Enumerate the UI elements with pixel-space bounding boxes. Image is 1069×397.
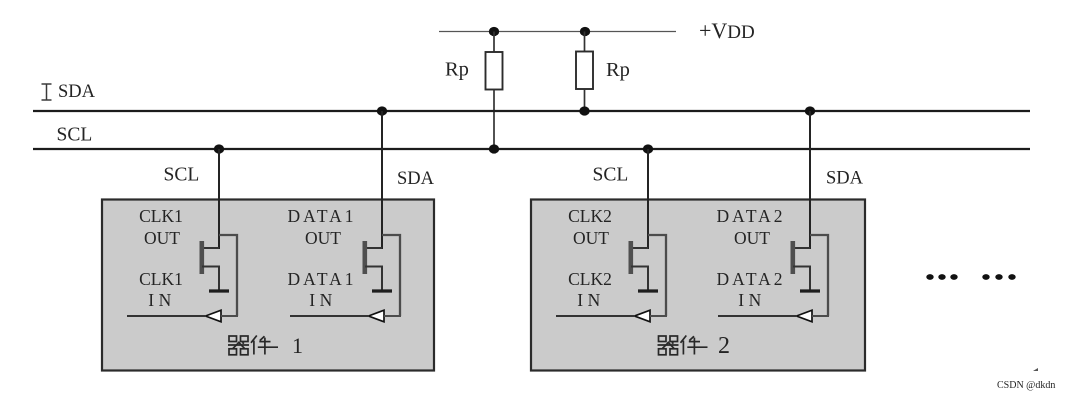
svg-text:IN: IN xyxy=(577,290,604,310)
device 1 box xyxy=(102,200,434,371)
svg-text:SDA: SDA xyxy=(58,82,96,102)
source terminal bar Q3 xyxy=(638,289,658,292)
svg-text:DATA2: DATA2 xyxy=(716,206,785,226)
wire SDA drop to device 1 DATA xyxy=(381,111,383,249)
svg-text:OUT: OUT xyxy=(144,228,180,248)
input buffer triangle CLK2 xyxy=(635,310,651,322)
label DATA2 IN xyxy=(716,269,785,310)
svg-text:DATA2: DATA2 xyxy=(716,269,785,289)
svg-text:DATA1: DATA1 xyxy=(287,269,356,289)
device 2 box xyxy=(531,200,865,371)
resistor Rp1 xyxy=(486,32,503,150)
wire SCL drop to device 2 CLK xyxy=(647,149,649,249)
svg-text:DATA1: DATA1 xyxy=(287,206,356,226)
wire SDA drop to device 2 DATA xyxy=(809,111,811,249)
source terminal bar Q1 xyxy=(209,289,229,292)
input buffer triangle DATA1 xyxy=(369,310,385,322)
svg-text:SCL: SCL xyxy=(593,165,629,186)
junction dot on SCL for CLK1 xyxy=(214,144,224,153)
svg-text:SDA: SDA xyxy=(826,169,864,189)
junction dot on SDA for Rp2 xyxy=(579,106,589,115)
wire feedback branch CLK1 xyxy=(219,235,237,316)
source terminal bar Q2 xyxy=(372,289,392,292)
label CLK2 IN xyxy=(568,269,612,310)
label DATA1 OUT xyxy=(287,206,356,248)
junction dot J1 (Rp1 top on VDD rail) xyxy=(489,27,499,36)
junction dot on SDA for DATA1 xyxy=(377,106,387,115)
svg-text:OUT: OUT xyxy=(573,228,609,248)
transistor Q3 (CLK2 driver) xyxy=(629,241,649,290)
ellipsis dots (more devices, group 2) xyxy=(982,274,1015,280)
wire DATA1 IN xyxy=(290,315,369,317)
svg-text:CLK1: CLK1 xyxy=(139,269,183,289)
label CLK1 IN xyxy=(139,269,183,310)
svg-text:SDA: SDA xyxy=(397,169,435,189)
transistor Q4 (DATA2 driver) xyxy=(791,241,811,290)
wire feedback branch CLK2 xyxy=(648,235,666,316)
input buffer triangle DATA2 xyxy=(797,310,813,322)
svg-text:Rp: Rp xyxy=(445,59,469,81)
svg-text:1: 1 xyxy=(292,333,303,358)
source terminal bar Q4 xyxy=(800,289,820,292)
wire CLK2 IN xyxy=(556,315,635,317)
label CLK2 OUT xyxy=(568,206,612,248)
wire SCL bus xyxy=(33,148,1030,150)
svg-text:CLK1: CLK1 xyxy=(139,206,183,226)
junction dot J2 (Rp2 top on VDD rail) xyxy=(580,27,590,36)
svg-text:CLK2: CLK2 xyxy=(568,269,612,289)
label DATA2 OUT xyxy=(716,206,785,248)
svg-text:CSDN @dkdn: CSDN @dkdn xyxy=(997,380,1055,391)
svg-text:+VDD: +VDD xyxy=(699,18,755,43)
ellipsis dots (more devices, group 1) xyxy=(926,274,957,280)
input buffer triangle CLK1 xyxy=(206,310,222,322)
svg-text:OUT: OUT xyxy=(305,228,341,248)
transistor Q2 (DATA1 driver) xyxy=(363,241,383,290)
svg-text:SCL: SCL xyxy=(164,165,200,186)
label 器件1 (device 1 name, drawn strokes) xyxy=(228,333,303,358)
wire VDD rail xyxy=(439,31,676,33)
label DATA1 IN xyxy=(287,269,356,310)
wire feedback branch DATA2 xyxy=(810,235,828,316)
svg-text:IN: IN xyxy=(148,290,175,310)
transistor Q1 (CLK1 driver) xyxy=(200,241,220,290)
resistor Rp2 xyxy=(576,32,593,112)
svg-text:OUT: OUT xyxy=(734,228,770,248)
svg-text:2: 2 xyxy=(718,333,730,359)
watermark artifact xyxy=(1033,368,1038,371)
svg-text:SCL: SCL xyxy=(57,125,93,146)
svg-text:IN: IN xyxy=(309,290,336,310)
wire SCL drop to device 1 CLK xyxy=(218,149,220,249)
wire SDA bus xyxy=(33,110,1030,112)
svg-text:Rp: Rp xyxy=(606,59,630,81)
label CLK1 OUT xyxy=(139,206,183,248)
wire CLK1 IN xyxy=(127,315,206,317)
svg-text:IN: IN xyxy=(738,290,765,310)
I-beam mark at SDA label xyxy=(42,84,52,100)
junction dot on SDA for DATA2 xyxy=(805,106,815,115)
junction dot on SCL for Rp1 xyxy=(489,144,499,153)
label 器件2 (device 2 name, drawn strokes) xyxy=(658,333,731,359)
wire feedback branch DATA1 xyxy=(382,235,400,316)
junction dot on SCL for CLK2 xyxy=(643,144,653,153)
wire DATA2 IN xyxy=(718,315,797,317)
svg-text:CLK2: CLK2 xyxy=(568,206,612,226)
